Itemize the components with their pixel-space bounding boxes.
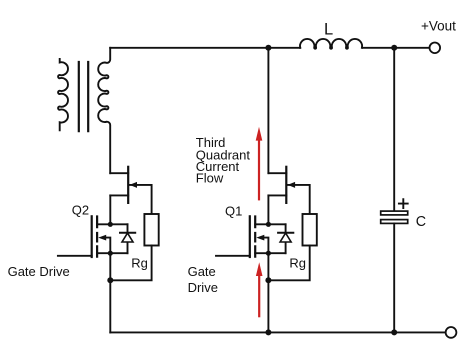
svg-text:+Vout: +Vout [421, 19, 456, 34]
svg-text:Gate Drive: Gate Drive [8, 264, 70, 279]
svg-text:Q1: Q1 [225, 203, 242, 218]
svg-text:Rg: Rg [131, 255, 148, 270]
svg-text:Rg: Rg [289, 255, 306, 270]
svg-text:Flow: Flow [196, 171, 224, 186]
svg-text:C: C [416, 214, 426, 230]
svg-text:Q2: Q2 [72, 202, 89, 217]
svg-text:Drive: Drive [188, 280, 218, 295]
svg-text:Gate: Gate [188, 264, 216, 279]
svg-text:L: L [324, 21, 333, 39]
